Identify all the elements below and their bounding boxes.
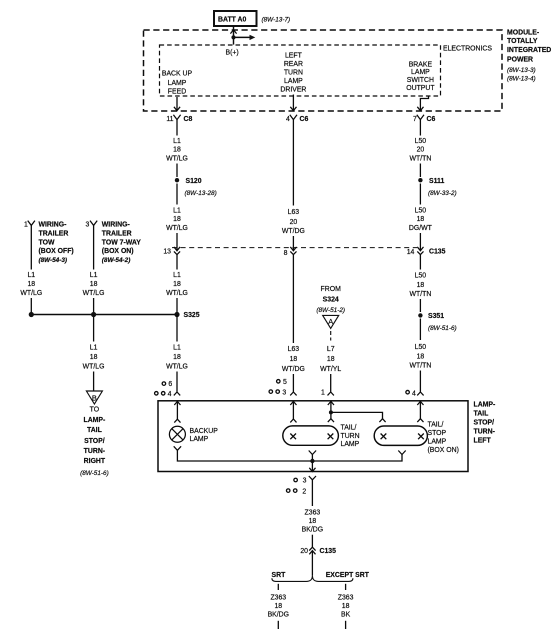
svg-text:14: 14	[407, 249, 415, 256]
svg-text:BACK UP: BACK UP	[162, 71, 193, 78]
wire label L1 18 WT/LG	[166, 345, 188, 371]
wire stub	[277, 621, 279, 629]
svg-text:WT/LG: WT/LG	[20, 290, 42, 297]
svg-text:1: 1	[24, 222, 28, 229]
svg-text:C135: C135	[429, 248, 446, 255]
svg-text:L50: L50	[415, 344, 427, 351]
svg-text:WT/DG: WT/DG	[282, 228, 305, 235]
connector C135 pin 20	[300, 547, 336, 555]
tail/stop lamp element	[374, 426, 427, 445]
svg-text:18: 18	[173, 281, 181, 288]
wire	[419, 319, 421, 341]
wire L50 below C135 pin 14	[419, 255, 421, 270]
wire	[292, 374, 294, 392]
svg-text:LAMP: LAMP	[428, 438, 447, 445]
svg-text:SRT: SRT	[272, 572, 287, 579]
connector C6 pin 4	[286, 115, 308, 123]
svg-text:11: 11	[166, 116, 173, 123]
svg-text:B: B	[92, 394, 97, 403]
svg-text:2: 2	[302, 488, 306, 495]
svg-text:TOTALLY: TOTALLY	[507, 38, 538, 45]
connector wiring-trailer tow pin 1	[24, 221, 35, 229]
svg-text:4: 4	[286, 116, 290, 123]
svg-text:S351: S351	[428, 313, 444, 320]
connector Y below backup lamp	[174, 446, 181, 450]
svg-text:S325: S325	[184, 312, 200, 319]
fuse BATT A0	[214, 11, 257, 26]
label TO LAMP-TAIL STOP/TURN-RIGHT	[80, 406, 109, 477]
junction dot pin1	[329, 410, 333, 414]
wire stub EXCEPT SRT branch	[345, 584, 347, 590]
svg-text:L50: L50	[415, 138, 427, 145]
junction dot pin3 branch	[91, 312, 96, 317]
svg-text:MODULE-: MODULE-	[507, 30, 540, 37]
label LEFT REAR TURN LAMP DRIVER	[280, 52, 306, 93]
svg-text:EXCEPT SRT: EXCEPT SRT	[326, 572, 370, 579]
wire L1 upper segment	[176, 120, 178, 136]
svg-text:18: 18	[173, 354, 181, 361]
svg-text:20: 20	[290, 219, 298, 226]
svg-text:7: 7	[413, 116, 417, 123]
svg-text:3: 3	[85, 222, 89, 229]
connector C8 pin 11	[166, 115, 192, 123]
svg-text:Z363: Z363	[270, 594, 286, 601]
wire L63 below C135 pin 8	[292, 255, 294, 343]
svg-text:SWITCH: SWITCH	[407, 77, 434, 84]
svg-text:TURN-: TURN-	[474, 429, 496, 436]
wire	[176, 372, 178, 392]
wire label L7 18 WT/YL	[320, 346, 341, 373]
svg-text:20: 20	[300, 548, 308, 555]
svg-text:L63: L63	[288, 346, 300, 353]
connector legs at backup lamp	[174, 419, 180, 422]
wire BATT A0 to TIPM B(+)	[233, 26, 235, 45]
svg-text:WT/LG: WT/LG	[166, 156, 188, 163]
wire tail/turn to bus	[311, 455, 313, 462]
svg-text:BK/DG: BK/DG	[302, 527, 323, 534]
wire back up lamp feed output	[174, 97, 180, 111]
svg-text:4: 4	[412, 391, 416, 398]
svg-text:L50: L50	[415, 207, 427, 214]
connector pin 3 tail/turn lamp	[269, 389, 297, 396]
svg-text:5: 5	[283, 379, 287, 386]
splice S351	[418, 313, 444, 320]
connector C135 dashed line	[172, 247, 417, 249]
junction dot pin1 branch	[29, 312, 34, 317]
svg-text:18: 18	[290, 356, 298, 363]
wire S325 down	[176, 315, 178, 342]
connector C135 pin 8	[284, 247, 297, 257]
wire	[176, 164, 178, 178]
connector Y below box	[309, 476, 316, 480]
connector C135 pin 14	[407, 247, 446, 256]
wire label L63 18 WT/DG	[282, 346, 305, 373]
svg-text:LAMP: LAMP	[190, 436, 209, 443]
svg-text:WT/LG: WT/LG	[166, 364, 188, 371]
svg-text:(8W-51-6): (8W-51-6)	[428, 325, 457, 332]
pin option dot 5	[277, 379, 287, 386]
splice S325	[174, 312, 199, 319]
wire label Z363 18 BK/DG	[302, 509, 323, 533]
wire label L1 18 WT/LG	[166, 272, 188, 297]
wire L50 upper segment	[419, 120, 421, 136]
svg-text:TAIL: TAIL	[474, 411, 489, 418]
module electronics inner dashed box	[160, 45, 441, 96]
svg-text:FEED: FEED	[168, 89, 186, 96]
svg-text:1: 1	[321, 389, 325, 396]
svg-text:BRAKE: BRAKE	[409, 61, 433, 68]
svg-text:WT/LG: WT/LG	[83, 290, 105, 297]
wire	[419, 164, 421, 178]
label BACKUP LAMP	[190, 428, 219, 443]
connector C135 pin 13	[163, 247, 180, 256]
svg-text:L1: L1	[173, 138, 181, 145]
svg-text:LAMP-: LAMP-	[474, 402, 497, 409]
svg-text:8: 8	[284, 250, 288, 257]
svg-text:LAMP: LAMP	[168, 80, 187, 87]
connector Y below tail/stop lamp	[398, 451, 405, 455]
svg-text:4: 4	[168, 391, 172, 398]
label TAIL/STOP LAMP (BOX ON)	[428, 422, 459, 454]
svg-text:18: 18	[173, 216, 181, 223]
connector pin 2	[286, 488, 306, 495]
svg-text:LEFT: LEFT	[474, 438, 492, 445]
wire	[93, 298, 95, 315]
label TAIL/TURN LAMP	[341, 424, 360, 448]
svg-text:STOP/: STOP/	[84, 438, 105, 445]
svg-text:L50: L50	[415, 273, 427, 280]
wire	[419, 233, 421, 250]
wire to tail/stop lamp right element	[419, 402, 421, 419]
wire	[419, 371, 421, 392]
svg-text:18: 18	[342, 603, 350, 610]
svg-text:BK: BK	[341, 611, 351, 618]
svg-text:BK/DG: BK/DG	[268, 611, 289, 618]
wire label L50 18 DG/WT	[409, 207, 433, 232]
wire label L1 18 WT/LG	[166, 138, 188, 163]
connector wiring-trailer tow 7-way pin 3	[85, 221, 97, 229]
dashed continuation from triangle A	[330, 331, 332, 341]
off-page triangle A	[323, 315, 339, 328]
svg-text:POWER: POWER	[507, 57, 533, 64]
svg-text:BACKUP: BACKUP	[190, 428, 219, 435]
wire label L1 18 WT/LG	[20, 272, 42, 297]
svg-text:STOP: STOP	[428, 430, 447, 437]
svg-text:(8W-13-4): (8W-13-4)	[507, 75, 536, 82]
svg-text:L1: L1	[90, 272, 98, 279]
svg-text:ELECTRONICS: ELECTRONICS	[443, 46, 492, 53]
wire	[176, 233, 178, 250]
svg-text:TRAILER: TRAILER	[102, 230, 132, 237]
svg-text:18: 18	[309, 518, 317, 525]
svg-text:L1: L1	[27, 272, 35, 279]
off-page triangle B	[86, 391, 102, 404]
wire label L1 18 WT/LG	[83, 272, 105, 297]
svg-text:(8W-13-7): (8W-13-7)	[262, 16, 291, 23]
svg-text:WT/DG: WT/DG	[282, 366, 305, 373]
wire label L1 18 WT/LG	[83, 345, 105, 371]
wire label Z363 18 BK/DG	[268, 594, 289, 618]
svg-text:(8W-51-6): (8W-51-6)	[80, 470, 109, 477]
wire pin1 with branch	[330, 402, 332, 419]
wire label Z363 18 BK	[338, 594, 354, 618]
svg-text:(BOX ON): (BOX ON)	[428, 447, 459, 454]
wire tail/stop to bus	[313, 455, 402, 462]
svg-text:L7: L7	[327, 346, 335, 353]
connector C6 pin 7	[413, 115, 435, 123]
svg-text:18: 18	[90, 281, 98, 288]
wire stub SRT branch	[277, 584, 279, 590]
wire to tail/turn lamp left element	[292, 402, 294, 419]
wire L63 upper segment	[292, 120, 294, 206]
svg-text:18: 18	[417, 282, 425, 289]
svg-text:TO: TO	[90, 406, 100, 413]
svg-text:(8W-54-2): (8W-54-2)	[102, 257, 131, 264]
svg-text:TOW: TOW	[39, 239, 55, 246]
wire label L1 18 WT/LG	[166, 207, 188, 232]
svg-text:L1: L1	[173, 345, 181, 352]
wire label L50 18 WT/TN	[409, 344, 431, 369]
svg-text:LAMP-: LAMP-	[83, 417, 106, 424]
wire brake lamp switch output	[417, 97, 428, 111]
svg-text:S324: S324	[323, 297, 339, 304]
svg-text:18: 18	[327, 356, 335, 363]
wire left rear turn lamp driver output	[290, 95, 296, 111]
svg-text:C8: C8	[184, 116, 193, 123]
svg-text:18: 18	[274, 603, 282, 610]
branch wire to tail/stop lamp	[331, 412, 383, 418]
svg-text:C6: C6	[300, 116, 309, 123]
connector pin 3	[294, 478, 307, 485]
wire below junction to triangle B	[93, 315, 95, 342]
wire pin3 drop	[93, 225, 95, 269]
svg-text:STOP/: STOP/	[474, 420, 495, 427]
connector arrow into module	[230, 30, 236, 34]
module TIPM outer dashed box	[144, 30, 503, 111]
wire	[93, 372, 95, 392]
svg-text:TAIL/: TAIL/	[341, 424, 357, 431]
wire	[176, 184, 178, 205]
pin arrow into box tail/turn left	[290, 401, 296, 405]
label FROM S324	[321, 286, 342, 303]
svg-text:18: 18	[417, 216, 425, 223]
wire Z363	[311, 480, 313, 506]
svg-text:S120: S120	[186, 178, 202, 185]
svg-text:OUTPUT: OUTPUT	[406, 85, 435, 92]
wire	[311, 535, 313, 547]
svg-text:13: 13	[163, 248, 171, 255]
wire to backup lamp	[176, 402, 178, 419]
connector Y below tail/turn lamp	[309, 451, 316, 455]
connector legs	[417, 419, 423, 422]
svg-text:WT/YL: WT/YL	[320, 366, 341, 373]
svg-text:WT/TN: WT/TN	[409, 362, 431, 369]
svg-text:3: 3	[282, 389, 286, 396]
label MODULE-TOTALLY INTEGRATED POWER	[507, 30, 551, 83]
svg-text:LAMP: LAMP	[411, 69, 430, 76]
svg-text:18: 18	[90, 354, 98, 361]
wire pin1 drop	[30, 225, 32, 269]
svg-text:(8W-33-2): (8W-33-2)	[428, 190, 457, 197]
svg-text:TAIL/: TAIL/	[428, 422, 444, 429]
wire splice bus S325	[31, 314, 177, 316]
svg-text:TURN-: TURN-	[84, 448, 106, 455]
wire	[176, 298, 178, 315]
wire L1 below C135 pin 13	[176, 255, 178, 270]
svg-text:WT/LG: WT/LG	[83, 364, 105, 371]
svg-text:L1: L1	[173, 207, 181, 214]
label WIRING-TRAILER TOW (BOX OFF)	[39, 222, 74, 265]
connector pin 1 tail/turn lamp	[321, 389, 334, 396]
wire below C135	[311, 551, 313, 575]
svg-text:(BOX OFF): (BOX OFF)	[39, 248, 74, 255]
tail/turn lamp element	[283, 426, 339, 445]
svg-text:FROM: FROM	[321, 286, 342, 293]
svg-text:6: 6	[168, 381, 172, 388]
label WIRING-TRAILER TOW 7-WAY (BOX ON)	[102, 222, 141, 265]
svg-text:18: 18	[27, 281, 35, 288]
svg-text:Z363: Z363	[338, 594, 354, 601]
svg-text:TURN: TURN	[341, 433, 360, 440]
label LAMP-TAIL STOP/TURN-LEFT	[474, 402, 497, 445]
svg-text:Z363: Z363	[305, 509, 321, 516]
svg-text:3: 3	[303, 478, 307, 485]
svg-text:C6: C6	[427, 116, 436, 123]
splice S120	[175, 178, 202, 185]
pin arrow into box tail/stop right	[417, 401, 423, 405]
svg-text:WIRING-: WIRING-	[102, 222, 131, 229]
bus arrow B(+)	[234, 35, 256, 40]
svg-text:(8W-13-3): (8W-13-3)	[507, 67, 536, 74]
connector legs	[290, 419, 296, 422]
svg-text:TURN: TURN	[284, 70, 303, 77]
svg-text:DG/WT: DG/WT	[409, 225, 433, 232]
splice S111	[418, 178, 444, 185]
svg-text:TAIL: TAIL	[87, 427, 102, 434]
svg-text:B(+): B(+)	[226, 50, 239, 57]
svg-text:20: 20	[417, 147, 425, 154]
svg-text:BATT A0: BATT A0	[218, 17, 246, 24]
svg-text:C135: C135	[320, 548, 337, 555]
label BACK UP LAMP FEED	[162, 71, 193, 96]
svg-text:(8W-54-3): (8W-54-3)	[39, 257, 68, 264]
wire	[30, 298, 32, 315]
wire label L63 20 WT/DG	[282, 209, 305, 235]
svg-text:18: 18	[417, 353, 425, 360]
pin option dot 6	[162, 381, 172, 388]
label BRAKE LAMP SWITCH OUTPUT	[406, 61, 435, 92]
wire	[292, 236, 294, 250]
svg-text:18: 18	[173, 147, 181, 154]
wire	[419, 299, 421, 312]
wire label L50 20 WT/TN	[409, 138, 431, 163]
svg-text:RIGHT: RIGHT	[84, 458, 106, 465]
connector pin 4 backup lamp	[155, 391, 181, 398]
wire	[330, 374, 332, 392]
svg-text:L1: L1	[173, 272, 181, 279]
junction dot ground bus	[310, 459, 314, 463]
svg-text:DRIVER: DRIVER	[280, 87, 306, 94]
svg-text:(8W-51-2): (8W-51-2)	[316, 307, 345, 314]
connector legs tail/turn right	[328, 419, 334, 422]
svg-text:L1: L1	[90, 345, 98, 352]
svg-text:TRAILER: TRAILER	[39, 230, 69, 237]
connector pin 4 tail/stop lamp	[406, 390, 424, 397]
svg-text:(BOX ON): (BOX ON)	[102, 248, 134, 255]
svg-text:LAMP: LAMP	[284, 78, 303, 85]
svg-text:WIRING-: WIRING-	[39, 222, 68, 229]
svg-text:TOW 7-WAY: TOW 7-WAY	[102, 239, 141, 246]
svg-text:WT/LG: WT/LG	[166, 225, 188, 232]
pin arrow into box backup lamp	[174, 401, 180, 405]
wire stub	[345, 621, 347, 629]
svg-text:(8W-13-28): (8W-13-28)	[185, 190, 217, 197]
svg-text:A: A	[328, 317, 333, 326]
lamp assembly box left	[158, 401, 468, 472]
svg-text:REAR: REAR	[284, 61, 303, 68]
options brace	[272, 575, 353, 581]
backup lamp bulb	[169, 426, 185, 442]
connector legs tail/stop left	[379, 419, 385, 422]
svg-text:WT/TN: WT/TN	[409, 291, 431, 298]
wire label L50 18 WT/TN	[409, 273, 431, 299]
svg-text:INTEGRATED: INTEGRATED	[507, 47, 551, 54]
svg-text:WT/LG: WT/LG	[166, 290, 188, 297]
svg-text:LEFT: LEFT	[285, 52, 303, 59]
svg-text:L63: L63	[288, 209, 300, 216]
wire bus exit from box	[311, 461, 313, 471]
wire backup lamp to ground bus	[177, 450, 311, 461]
svg-text:LAMP: LAMP	[341, 441, 360, 448]
wire	[419, 184, 421, 205]
node B(+) junction dot	[231, 35, 235, 39]
pin arrow into box tail/turn right	[328, 401, 334, 405]
pin arrow out of box	[309, 468, 315, 472]
svg-text:S111: S111	[429, 178, 444, 185]
svg-text:WT/TN: WT/TN	[409, 156, 431, 163]
